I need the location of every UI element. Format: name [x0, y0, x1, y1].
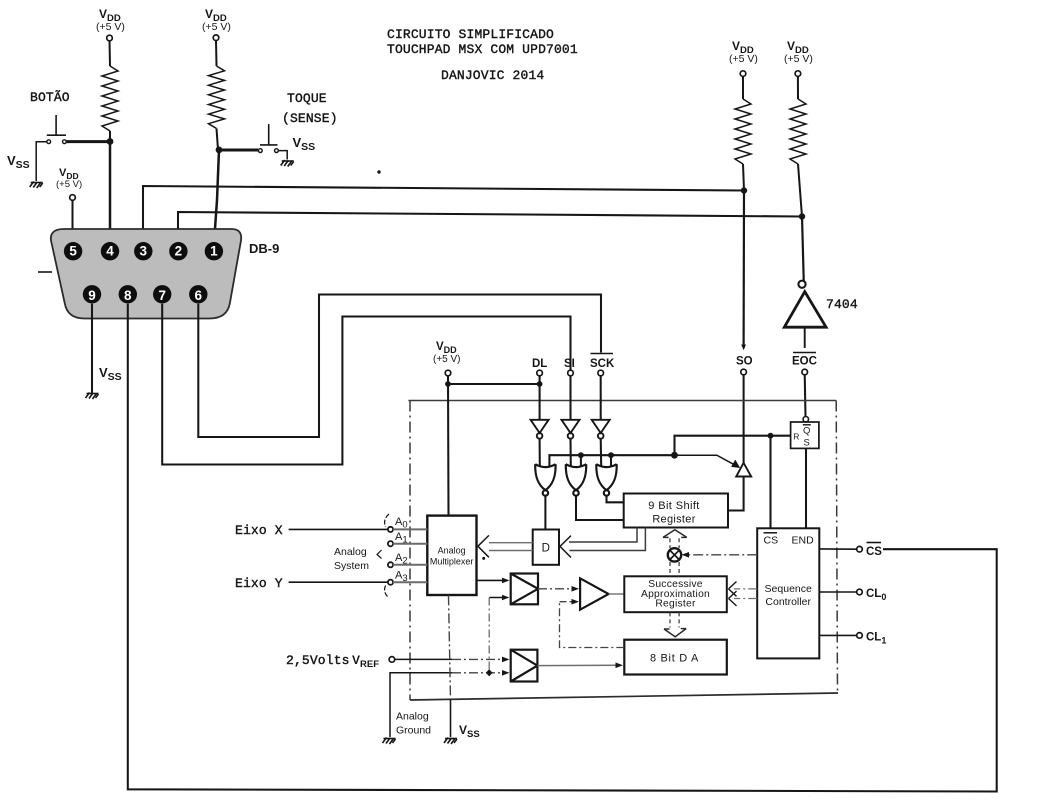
junction dot DL	[537, 381, 543, 387]
wire DA feedback into comparator	[560, 601, 575, 603]
wire R1 to junction	[109, 131, 111, 141]
ground VSS	[444, 738, 457, 745]
pin 9	[83, 285, 101, 303]
svg-text:EOC: EOC	[792, 356, 817, 368]
wire VREF to X2	[395, 658, 453, 660]
svg-text:S: S	[804, 438, 810, 449]
SI terminal	[568, 370, 574, 376]
resistor R1	[102, 66, 118, 131]
stray dot right of mux	[482, 557, 485, 560]
wire R4 to junction	[798, 164, 802, 217]
D latch box	[533, 530, 559, 565]
UPD7001 IC boundary left edge	[409, 401, 411, 701]
svg-text:Ground: Ground	[396, 725, 431, 737]
VDD1 terminal	[107, 35, 113, 41]
svg-text:(+5 V): (+5 V)	[784, 53, 813, 65]
NOR gate G1	[535, 464, 555, 495]
arrowhead tri-state control	[731, 460, 740, 468]
svg-text:(+5 V): (+5 V)	[96, 21, 125, 33]
open arrowhead into multiplexer	[478, 535, 489, 557]
VREF terminal	[389, 657, 395, 663]
arrowhead DA feedback	[572, 599, 580, 605]
pin 3	[134, 242, 152, 260]
junction dot gate2	[578, 452, 584, 458]
terminal A1	[388, 541, 393, 546]
svg-text:SCK: SCK	[590, 358, 615, 370]
svg-text:Analog: Analog	[334, 546, 367, 558]
wire SO into IC to tri-state	[743, 375, 745, 463]
VREF buffer box X2	[511, 650, 538, 682]
pin 4	[101, 242, 119, 260]
common gating line	[549, 455, 674, 467]
flip-flop RQS box	[791, 422, 819, 448]
svg-text:2,5Volts: 2,5Volts	[286, 653, 350, 668]
NOR gate G2	[566, 464, 586, 495]
wire switch to VSS	[278, 151, 287, 160]
wire S input from END	[805, 448, 807, 528]
svg-text:System: System	[334, 560, 369, 572]
CL1 output wire	[819, 634, 857, 636]
terminal A0	[388, 527, 393, 532]
svg-text:TOQUE: TOQUE	[287, 91, 327, 106]
hollow arrow down into DA	[664, 629, 686, 637]
junction dot EOC pullup	[799, 213, 805, 219]
wire X2 output to DA	[537, 664, 618, 666]
CS terminal	[857, 546, 863, 552]
dashed shaft clock to shift register	[670, 538, 679, 548]
svg-text:DANJOVIC 2014: DANJOVIC 2014	[441, 68, 544, 83]
resistor R4	[790, 99, 806, 164]
svg-text:Analog: Analog	[396, 711, 429, 723]
VDD2 terminal	[213, 35, 219, 41]
arrowhead into X2 lower	[502, 670, 510, 676]
CS output wire	[819, 548, 857, 550]
bus D latch to multiplexer	[489, 543, 533, 551]
svg-text:Q: Q	[803, 426, 810, 437]
hollow arrow up into shift register	[663, 530, 687, 538]
wire A1 to mux	[393, 543, 427, 545]
arrows sequence controller to SAR	[734, 589, 757, 599]
svg-text:8 Bit D A: 8 Bit D A	[650, 653, 699, 665]
svg-text:Eixo X: Eixo X	[235, 523, 283, 538]
CL0 terminal	[857, 589, 863, 595]
NOR gate G3	[596, 464, 616, 495]
SO arrowhead	[741, 345, 746, 351]
wire SI to inverter	[569, 376, 571, 420]
wire pin3 riser and long line to SO pullup	[143, 186, 744, 243]
svg-text:D: D	[542, 543, 550, 555]
wire mux to X1	[477, 579, 507, 581]
junction dot R1/BOTAO	[107, 138, 114, 145]
svg-text:TOUCHPAD MSX COM UPD7001: TOUCHPAD MSX COM UPD7001	[387, 42, 578, 57]
wire junction to 7404 bubble	[802, 217, 804, 284]
ground BOTAO	[30, 182, 43, 189]
wire SCK to inverter	[600, 376, 602, 420]
DB-9 connector body	[51, 229, 241, 319]
dashed shaft SAR to DA	[670, 612, 679, 627]
DB-9 left notch	[38, 271, 52, 273]
VDD4 terminal	[795, 71, 801, 77]
wire pin2 riser and long line to 7404 output	[178, 212, 802, 243]
wire VREF branch to X1	[489, 597, 506, 599]
dash-dot from X1 branch down to VREF line	[488, 598, 490, 673]
arc mark above A0	[385, 514, 389, 527]
junction dot VREF branch	[486, 669, 493, 676]
SCK terminal	[598, 370, 604, 376]
open arrowhead into D latch	[560, 536, 571, 558]
svg-text:CS: CS	[866, 546, 882, 558]
analog ground wire	[390, 673, 452, 737]
terminal A2	[388, 562, 393, 567]
svg-text:9: 9	[88, 288, 96, 303]
wire A2 to mux	[393, 564, 427, 566]
9 bit shift register box	[624, 494, 728, 528]
EOC overline	[793, 352, 816, 354]
wire inverter U3 to gate3	[600, 439, 603, 467]
wire tri-state input from shift register	[728, 477, 744, 511]
wire EOC into IC to flip-flop bubble	[804, 375, 807, 417]
wire SO vertical	[742, 191, 745, 349]
wire inverter U1 to gate1	[539, 439, 541, 467]
wire G2 output to shift register	[576, 496, 624, 520]
wire VDD1 to R1	[109, 41, 112, 66]
svg-text:7: 7	[158, 288, 166, 303]
CL0 output wire	[819, 591, 857, 593]
inverter U2 (SI)	[562, 420, 580, 439]
svg-text:6: 6	[195, 288, 203, 303]
svg-text:Sequence: Sequence	[765, 583, 812, 595]
comparator triangle	[580, 578, 609, 609]
inverter U3 (SCK)	[592, 420, 610, 439]
analog multiplexer box	[427, 516, 476, 595]
stub gate3 input	[610, 455, 612, 467]
wire R2 to junction	[217, 129, 219, 150]
svg-text:R: R	[793, 432, 799, 442]
svg-text:SI: SI	[564, 358, 575, 370]
svg-text:DL: DL	[532, 358, 547, 370]
svg-text:9 Bit Shift: 9 Bit Shift	[648, 500, 699, 512]
VDD3 terminal	[740, 71, 746, 77]
resistor R3	[735, 99, 751, 164]
svg-text:DB-9: DB-9	[249, 241, 279, 256]
svg-text:8: 8	[124, 288, 132, 303]
arc mark below A3	[385, 586, 389, 599]
wire mux bottom to VSS	[449, 595, 451, 699]
svg-text:END: END	[792, 535, 815, 547]
svg-text:(+5 V): (+5 V)	[202, 21, 231, 33]
tri-state buffer	[736, 463, 751, 477]
svg-text:7404: 7404	[826, 297, 858, 312]
dashed shaft clock to SAR	[670, 562, 679, 576]
pin 6	[189, 285, 207, 303]
wire VDD4 to R4	[797, 76, 799, 99]
wire VDD small to pin5	[72, 200, 74, 243]
wire switch to VSS	[36, 142, 47, 181]
svg-text:Controller: Controller	[765, 596, 811, 608]
wire R2 junction to switch	[218, 149, 258, 152]
wire CS branch down to sequence controller	[769, 436, 771, 529]
arrowhead into comparator	[572, 586, 580, 592]
flip-flop output bubble	[803, 417, 808, 422]
junction dot node EN	[671, 452, 678, 459]
switch TOQUE	[260, 124, 278, 145]
wire EN to tri-state control	[675, 455, 735, 465]
stub gate2 input	[580, 455, 582, 467]
wire VDD5 to DL	[448, 383, 540, 385]
svg-text:(+5 V): (+5 V)	[56, 179, 82, 190]
clock circle symbol	[668, 548, 681, 561]
wire VDD5 down to multiplexer	[447, 376, 450, 516]
8 bit DA box	[624, 640, 727, 675]
arrowhead into X2	[502, 657, 510, 663]
UPD7001 IC boundary top edge	[408, 400, 836, 402]
wire A0 to mux	[393, 528, 427, 530]
wire sequence controller to clock	[684, 554, 757, 556]
svg-text:Analog: Analog	[438, 546, 466, 556]
CS overline	[867, 542, 882, 544]
wire A3 to mux	[393, 581, 427, 583]
7404 output bubble	[798, 281, 805, 288]
UPD7001 IC boundary right edge	[836, 401, 837, 694]
junction dot gate3	[608, 452, 614, 458]
inverter U1 (DL)	[531, 420, 549, 439]
successive approximation register box	[624, 576, 727, 612]
VDD2 label	[205, 7, 227, 24]
wire X1 output to comparator	[538, 588, 574, 590]
SCK overline	[591, 353, 614, 355]
open arrowhead SAR upper	[729, 582, 737, 606]
SO terminal	[741, 369, 747, 375]
wire switch to R1 junction	[66, 140, 110, 143]
junction dot SO pullup	[741, 187, 747, 193]
wire EN up to R input	[675, 436, 791, 456]
switch BOTAO	[47, 115, 66, 135]
wire Eixo Y to A3	[289, 581, 389, 583]
wire G3 output to shift register	[607, 496, 624, 503]
svg-text:2: 2	[175, 244, 183, 259]
resistor R2	[209, 66, 225, 129]
svg-text:4: 4	[106, 244, 114, 259]
wire R3 to junction	[743, 164, 744, 191]
pin 7	[153, 285, 171, 303]
wire VDD2 to R2	[215, 40, 218, 66]
VDD1 label	[99, 7, 121, 24]
wire pin7 staircase to SI	[162, 304, 570, 465]
svg-text:SO: SO	[736, 356, 753, 368]
svg-text:1: 1	[210, 244, 218, 259]
junction dot CS branch	[768, 433, 774, 439]
CL1 terminal	[857, 633, 863, 639]
pin 1	[205, 242, 223, 260]
angle mark	[377, 550, 382, 559]
arrowhead into DA	[616, 663, 624, 669]
DL terminal	[537, 370, 543, 376]
wire 7404 input	[804, 327, 806, 348]
svg-text:BOTÃO: BOTÃO	[30, 90, 70, 105]
wire junction to pin4	[109, 142, 112, 244]
arrowhead into X1	[502, 578, 510, 584]
pin 8	[119, 285, 137, 303]
wire Eixo X to A0	[289, 528, 389, 530]
pin 2	[169, 242, 187, 260]
dash-dot DA feedback loop	[560, 602, 625, 648]
wire inverter U2 to gate2	[569, 439, 571, 467]
ground pin9	[86, 393, 99, 400]
svg-text:5: 5	[69, 244, 77, 259]
stray dot	[377, 170, 380, 173]
pin 5	[64, 242, 82, 260]
wire G1 output to D latch	[544, 496, 546, 530]
inverter 7404	[784, 292, 826, 328]
wire pin9 to VSS ground	[91, 304, 93, 393]
svg-text:CS: CS	[764, 535, 779, 547]
svg-text:3: 3	[140, 244, 148, 259]
wire pin6 staircase to SCK	[198, 295, 601, 438]
svg-text:Eixo Y: Eixo Y	[235, 576, 283, 591]
VDD5 terminal	[445, 370, 451, 376]
wire pin8 outer loop to CS	[128, 304, 997, 792]
EOC terminal	[802, 369, 808, 375]
arrowhead into clock	[682, 552, 690, 558]
junction dot R2/TOQUE	[216, 147, 223, 154]
svg-text:(+5 V): (+5 V)	[729, 53, 758, 65]
svg-text:CIRCUITO SIMPLIFICADO: CIRCUITO SIMPLIFICADO	[387, 27, 554, 42]
UPD7001 IC boundary bottom edge	[410, 693, 838, 700]
wire VDD3 to R3	[742, 76, 744, 99]
ground TOQUE	[281, 160, 294, 167]
arrowhead into X1 lower	[502, 595, 510, 601]
svg-text:(+5 V): (+5 V)	[433, 354, 461, 365]
VDD small terminal	[70, 195, 76, 201]
ground analog	[383, 738, 396, 745]
wire DL to inverter	[539, 376, 541, 420]
svg-text:Register: Register	[652, 514, 695, 526]
sequence controller box	[757, 528, 819, 658]
comparator sample box X1	[511, 574, 538, 605]
VDD3 label	[732, 39, 754, 56]
junction dot VDD5	[445, 381, 451, 387]
bus shift register to D latch	[569, 528, 645, 551]
VDD4 label	[787, 39, 809, 56]
svg-text:(SENSE): (SENSE)	[282, 111, 338, 126]
wire junction to pin1	[214, 150, 219, 243]
svg-text:Multiplexer: Multiplexer	[430, 557, 474, 567]
svg-text:Register: Register	[655, 598, 696, 609]
wire comparator output to SAR	[609, 593, 625, 595]
terminal A3	[388, 580, 393, 585]
